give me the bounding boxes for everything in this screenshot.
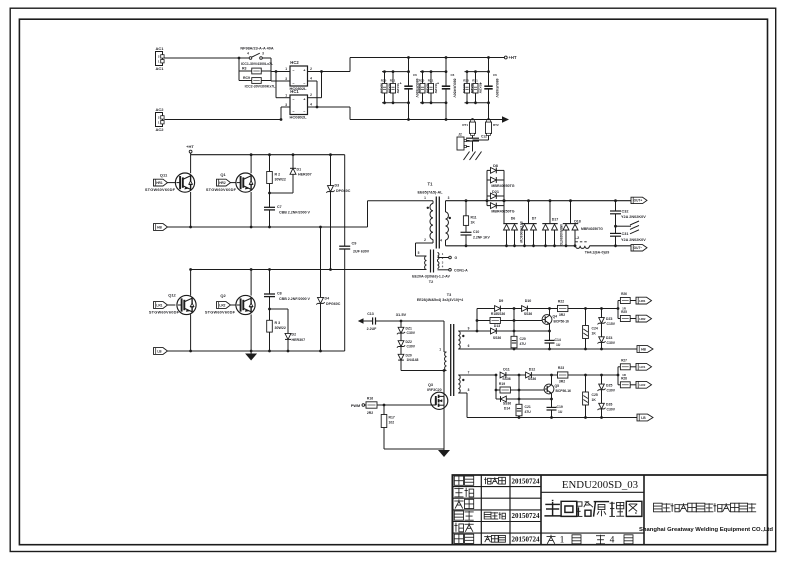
svg-text:7: 7 (468, 371, 470, 375)
svg-text:−: − (292, 81, 294, 85)
svg-text:31.5V: 31.5V (396, 312, 407, 317)
svg-text:Y2A 2N02K0V: Y2A 2N02K0V (621, 215, 646, 219)
svg-text:R30: R30 (463, 78, 469, 82)
svg-text:AC2: AC2 (155, 127, 164, 132)
svg-text:680UF/450V: 680UF/450V (495, 78, 499, 98)
svg-text:4: 4 (440, 239, 442, 243)
svg-text:−: − (292, 97, 294, 101)
svg-text:R3: R3 (242, 67, 247, 71)
svg-text:HER307: HER307 (298, 173, 312, 177)
svg-text:STTH6003CW: STTH6003CW (519, 221, 523, 243)
svg-text:1K: 1K (592, 398, 597, 402)
svg-text:1U: 1U (556, 343, 561, 347)
svg-text:D12: D12 (529, 367, 536, 371)
svg-text:SS36: SS36 (493, 336, 501, 340)
svg-text:DPG60C: DPG60C (326, 302, 341, 306)
svg-text:HB: HB (157, 225, 162, 229)
svg-text:DZ2: DZ2 (406, 340, 413, 344)
svg-text:T1: T1 (428, 181, 434, 186)
svg-text:SS36: SS36 (502, 377, 510, 381)
svg-text:2: 2 (424, 238, 426, 242)
svg-text:D17: D17 (552, 218, 559, 222)
svg-text:LB: LB (641, 416, 646, 420)
svg-text:R30: R30 (419, 78, 425, 82)
svg-text:MBR40250TG: MBR40250TG (491, 184, 514, 188)
svg-text:SS36: SS36 (524, 312, 532, 316)
svg-text:Q12: Q12 (168, 293, 176, 298)
svg-text:1: 1 (424, 196, 426, 200)
svg-text:51K2W: 51K2W (471, 83, 475, 93)
svg-text:DPG60C: DPG60C (336, 189, 351, 193)
svg-text:C30V: C30V (607, 408, 616, 412)
svg-text:HR2: HR2 (639, 317, 645, 321)
svg-text:EE20A-3(30&6)-1.2-AV: EE20A-3(30&6)-1.2-AV (412, 275, 450, 279)
svg-text:C25: C25 (592, 393, 598, 397)
svg-text:L2: L2 (575, 236, 579, 240)
svg-text:D8: D8 (493, 164, 498, 168)
svg-text:RT2: RT2 (493, 123, 499, 127)
svg-text:C31: C31 (622, 232, 629, 236)
svg-text:20150724: 20150724 (512, 477, 541, 485)
svg-text:C30V: C30V (407, 345, 416, 349)
svg-text:STGW60V60DF: STGW60V60DF (206, 187, 237, 192)
svg-text:C20: C20 (520, 337, 526, 341)
svg-text:+HT: +HT (508, 55, 516, 60)
svg-text:C6: C6 (413, 73, 417, 77)
svg-text:9: 9 (468, 327, 470, 331)
svg-text:2: 2 (310, 67, 312, 71)
svg-text:PWM: PWM (351, 404, 360, 408)
svg-text:8: 8 (468, 388, 470, 392)
svg-text:1: 1 (285, 67, 287, 71)
svg-text:1K: 1K (471, 220, 476, 224)
svg-text:4: 4 (247, 52, 249, 56)
svg-text:~: ~ (303, 82, 305, 86)
svg-text:D4: D4 (325, 296, 330, 300)
svg-text:4: 4 (610, 536, 615, 546)
svg-text:T2: T2 (429, 280, 433, 284)
svg-text:20150724: 20150724 (512, 512, 541, 520)
svg-text:R28: R28 (621, 377, 627, 381)
svg-text:2.2UF: 2.2UF (367, 327, 378, 331)
svg-text:LR2: LR2 (219, 303, 225, 307)
svg-text:R31: R31 (472, 78, 478, 82)
svg-text:EE28(4N&5x4) 3x2(4V10)+4: EE28(4N&5x4) 3x2(4V10)+4 (417, 298, 463, 302)
svg-text:C13: C13 (367, 312, 374, 316)
svg-text:EE65(7&5)-AL: EE65(7&5)-AL (417, 191, 443, 195)
svg-text:20150724: 20150724 (512, 535, 541, 543)
svg-text:D20: D20 (406, 353, 412, 357)
svg-text:R16: R16 (367, 397, 373, 401)
svg-text:Shanghai Greatway Welding Equi: Shanghai Greatway Welding Equipment CO.,… (639, 527, 773, 533)
svg-text:BCP56-16: BCP56-16 (554, 320, 570, 324)
svg-text:T3: T3 (447, 293, 451, 297)
svg-text:C8: C8 (277, 292, 282, 296)
svg-text:47U: 47U (525, 410, 532, 414)
svg-text:C21: C21 (525, 405, 531, 409)
svg-text:51K2W: 51K2W (388, 83, 392, 93)
svg-text:C15V: C15V (607, 322, 616, 326)
svg-text:−: − (292, 110, 294, 114)
svg-text:C32: C32 (622, 209, 629, 213)
svg-text:OUT+: OUT+ (634, 199, 643, 203)
svg-text:D21: D21 (492, 190, 499, 194)
svg-text:R22: R22 (558, 300, 564, 304)
svg-text:LR1: LR1 (156, 303, 162, 307)
svg-text:1: 1 (285, 93, 287, 97)
svg-text:CBB 2.2NF/2000 V: CBB 2.2NF/2000 V (279, 297, 311, 301)
svg-text:2UF 630V: 2UF 630V (353, 250, 370, 254)
svg-text:DZ1: DZ1 (406, 326, 413, 330)
svg-text:R26: R26 (621, 292, 627, 296)
svg-text:3: 3 (285, 103, 287, 107)
svg-text:D18: D18 (574, 219, 581, 223)
svg-text:C6: C6 (493, 73, 497, 77)
svg-text:3: 3 (262, 52, 264, 56)
svg-text:C10: C10 (473, 230, 479, 234)
svg-text:Q1: Q1 (220, 172, 226, 177)
svg-text:HC0802L: HC0802L (289, 115, 307, 120)
svg-text:680UF/450V: 680UF/450V (452, 78, 456, 98)
svg-text:+HT: +HT (186, 144, 194, 149)
svg-text:4: 4 (310, 76, 312, 80)
svg-text:5: 5 (418, 251, 420, 255)
svg-text:HR1: HR1 (639, 299, 645, 303)
svg-text:BCP56-16: BCP56-16 (556, 389, 572, 393)
svg-text:R25: R25 (621, 310, 627, 314)
svg-text:STGW60V60DF: STGW60V60DF (205, 310, 236, 315)
svg-text:R30: R30 (381, 78, 387, 82)
svg-text:C30V: C30V (607, 341, 616, 345)
svg-text:C9: C9 (352, 242, 357, 246)
svg-text:D10: D10 (525, 299, 532, 303)
svg-text:ICC1-30V/4300Lx7L: ICC1-30V/4300Lx7L (241, 62, 274, 66)
svg-text:102: 102 (389, 421, 395, 425)
svg-text:SS36: SS36 (497, 312, 505, 316)
svg-text:TH4.2(6A-0)U9: TH4.2(6A-0)U9 (585, 251, 610, 255)
svg-text:Y2A 2N02K0V: Y2A 2N02K0V (621, 238, 646, 242)
svg-text:51K2W: 51K2W (418, 83, 422, 93)
svg-text:MBR40250TG: MBR40250TG (581, 227, 603, 231)
svg-text:AC2: AC2 (155, 107, 164, 112)
svg-text:D7: D7 (532, 216, 537, 220)
svg-text:R11: R11 (471, 216, 477, 220)
svg-text:4: 4 (310, 103, 312, 107)
svg-text:2: 2 (310, 93, 312, 97)
svg-text:51K2W: 51K2W (426, 83, 430, 93)
svg-text:R19: R19 (499, 382, 505, 386)
svg-text:HB: HB (641, 347, 646, 351)
svg-text:HC1: HC1 (290, 89, 299, 94)
svg-text:30W22: 30W22 (275, 326, 286, 330)
svg-text:OUT−: OUT− (634, 246, 643, 250)
svg-text:STGW60V60DF: STGW60V60DF (149, 310, 180, 315)
svg-text:C30V: C30V (607, 389, 616, 393)
svg-text:47U: 47U (520, 342, 527, 346)
svg-text:DZ3: DZ3 (606, 317, 613, 321)
svg-text:D6: D6 (511, 216, 516, 220)
svg-text:G: G (455, 256, 458, 260)
svg-text:D3: D3 (335, 183, 340, 187)
svg-text:Q4: Q4 (553, 314, 558, 318)
svg-text:STGW60V60DF: STGW60V60DF (145, 187, 176, 192)
svg-text:3: 3 (448, 196, 450, 200)
svg-text:−: − (292, 68, 294, 72)
svg-text:R 3: R 3 (275, 321, 281, 325)
svg-text:HC2: HC2 (290, 60, 299, 65)
svg-text:NF98A/23-A-A 40A: NF98A/23-A-A 40A (240, 46, 273, 50)
svg-text:AC1: AC1 (155, 66, 164, 71)
svg-text:3R2: 3R2 (559, 313, 565, 317)
svg-text:1: 1 (439, 348, 441, 352)
svg-text:C19: C19 (557, 405, 563, 409)
svg-text:C12: C12 (481, 134, 487, 138)
svg-text:DZ6: DZ6 (606, 403, 613, 407)
svg-text:HER307: HER307 (292, 338, 306, 342)
svg-text:1U: 1U (558, 410, 563, 414)
svg-text:LR1: LR1 (640, 365, 646, 369)
svg-text:R27: R27 (621, 358, 627, 362)
svg-text:Q3: Q3 (428, 383, 433, 387)
svg-text:MBR40250TG: MBR40250TG (491, 209, 514, 213)
svg-text:CBB 2.2NF/2000 V: CBB 2.2NF/2000 V (279, 210, 311, 214)
svg-text:RT1: RT1 (462, 123, 468, 127)
svg-text:MBR40250TG: MBR40250TG (559, 224, 563, 246)
svg-text:Q5: Q5 (555, 384, 560, 388)
svg-text:HR2: HR2 (219, 181, 226, 185)
svg-text:DZ4: DZ4 (606, 336, 613, 340)
svg-text:D1: D1 (297, 167, 302, 171)
svg-text:1N4148: 1N4148 (407, 358, 419, 362)
svg-text:J2: J2 (458, 132, 462, 136)
svg-text:6: 6 (468, 344, 470, 348)
svg-text:R18: R18 (491, 312, 497, 316)
svg-text:1K: 1K (592, 331, 597, 335)
svg-text:AC1: AC1 (155, 46, 164, 51)
svg-text:3: 3 (285, 77, 287, 81)
svg-text:ENDU200SD_03: ENDU200SD_03 (562, 479, 638, 491)
svg-text:SS36: SS36 (503, 401, 511, 405)
svg-text:C30V: C30V (407, 331, 416, 335)
svg-text:CON1-A: CON1-A (454, 268, 468, 272)
svg-text:D13: D13 (494, 324, 500, 328)
svg-text:HR1: HR1 (156, 181, 163, 185)
svg-text:ICC2-30V/300Kx7L: ICC2-30V/300Kx7L (245, 85, 277, 89)
svg-text:~: ~ (303, 110, 305, 114)
svg-text:RC9: RC9 (243, 76, 250, 80)
svg-text:30W22: 30W22 (275, 177, 286, 181)
svg-text:LB: LB (157, 349, 162, 353)
svg-text:2.2NF 1KV: 2.2NF 1KV (473, 235, 491, 239)
svg-text:C7: C7 (277, 205, 282, 209)
svg-text:SS36: SS36 (528, 377, 536, 381)
svg-text:DZ5: DZ5 (606, 384, 613, 388)
svg-text:R31: R31 (428, 78, 434, 82)
svg-text:D14: D14 (504, 406, 510, 410)
svg-text:R 2: R 2 (275, 172, 281, 176)
svg-text:1: 1 (560, 536, 565, 546)
svg-text:R23: R23 (558, 366, 564, 370)
svg-text:C6: C6 (451, 73, 455, 77)
svg-text:R31: R31 (390, 78, 396, 82)
svg-text:Q11: Q11 (160, 172, 168, 177)
svg-text:51K2W: 51K2W (462, 83, 466, 93)
svg-text:2R2: 2R2 (367, 411, 373, 415)
svg-text:51K2W: 51K2W (380, 83, 384, 93)
svg-text:C14: C14 (555, 338, 561, 342)
svg-text:LR2: LR2 (640, 383, 646, 387)
svg-text:3R2: 3R2 (559, 380, 565, 384)
svg-text:D11: D11 (503, 367, 509, 371)
svg-text:D9: D9 (499, 299, 504, 303)
svg-text:Q2: Q2 (220, 293, 226, 298)
svg-text:C24: C24 (592, 326, 598, 330)
svg-text:D2: D2 (292, 332, 297, 336)
svg-text:R17: R17 (389, 416, 395, 420)
svg-text:IRF3C20: IRF3C20 (427, 388, 441, 392)
